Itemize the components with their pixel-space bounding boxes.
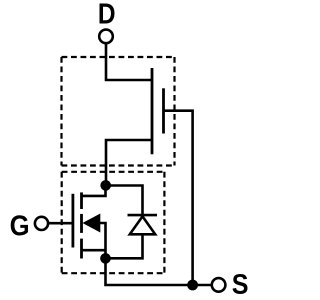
node B junction	[100, 253, 111, 264]
node C junction on source rail	[187, 280, 198, 291]
wire: G terminal to Q2 gate	[48, 222, 71, 225]
dashed box around Q1	[62, 57, 175, 166]
wire: Q1 gate to source rail	[164, 111, 193, 285]
diode D1 (body diode)	[128, 215, 158, 234]
wire: diode anode to node B	[106, 234, 143, 258]
wire: node B to terminal S	[106, 258, 212, 285]
label S	[233, 274, 248, 294]
transistor Q2 (n-channel MOSFET)	[73, 192, 82, 258]
dashed box around Q2	[62, 172, 165, 273]
wire: node A to diode cathode	[106, 186, 143, 216]
terminal S	[212, 278, 226, 292]
label D	[100, 4, 115, 24]
wire: Q2 body to source rail	[97, 223, 106, 258]
label G	[11, 215, 28, 235]
wire: D terminal to Q1 drain	[106, 43, 152, 80]
wire: Q2 drain to node A	[82, 188, 106, 196]
terminal G	[35, 217, 48, 230]
node A junction	[100, 180, 111, 191]
Q2 body arrow	[83, 214, 101, 233]
terminal D	[99, 30, 113, 44]
transistor Q1 (depletion-mode FET)	[152, 68, 164, 154]
wire: Q2 source stub	[82, 249, 106, 252]
wire: Q1 source down to node A	[106, 140, 152, 186]
